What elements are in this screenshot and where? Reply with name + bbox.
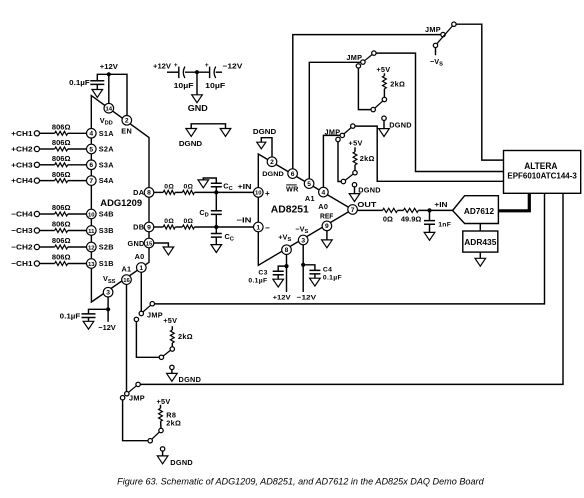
label −IN (237, 215, 252, 224)
svg-text:A0: A0 (318, 202, 328, 211)
ground DGND (bracket left) (179, 129, 202, 149)
node pull-up switch upper (ADG A0) (170, 347, 174, 351)
wire JMP4 lower to pull-up switch (136, 322, 159, 358)
resistor 806Ω (+CH2) (52, 140, 71, 151)
node +CH4 terminal (11, 176, 39, 185)
svg-text:DB: DB (133, 223, 144, 232)
node −12V (ADG1209 VSS) (98, 323, 116, 332)
node pull-up switch upper (A1) (382, 97, 386, 101)
svg-text:−12V: −12V (222, 62, 242, 71)
pin 16 A1 of ADG1209 (121, 264, 131, 284)
resistor 0Ω (DA second) (182, 183, 194, 194)
svg-text:−CH1: −CH1 (11, 259, 32, 268)
node jumper JMP2 common (361, 60, 365, 64)
pin 15 GND of ADG1209 (127, 238, 153, 248)
svg-text:2kΩ: 2kΩ (166, 419, 181, 428)
svg-text:DGND: DGND (179, 139, 202, 148)
wire resistor to pin 6 (68, 164, 87, 166)
svg-text:806Ω: 806Ω (52, 172, 71, 179)
pin 4 A0 of AD8251 (318, 187, 328, 211)
wire DA junction to CC cap (215, 187, 217, 193)
node jumper JMP5 lower (120, 396, 124, 400)
svg-text:4: 4 (322, 189, 326, 196)
ground at 1nF (424, 232, 435, 240)
jumper JMP1 blade (437, 26, 453, 44)
wire +CH4 to resistor (40, 180, 55, 182)
wire pin 7 to 0Ω (357, 209, 382, 211)
svg-text:S3B: S3B (99, 226, 114, 235)
ground DGND (ADG A1 jumper) (157, 456, 193, 467)
svg-text:GND: GND (188, 104, 208, 113)
svg-text:+IN: +IN (238, 182, 252, 191)
svg-text:S3A: S3A (99, 160, 115, 169)
svg-text:S1A: S1A (99, 129, 115, 138)
svg-text:−IN: −IN (237, 215, 252, 224)
wire +12V junction to pin 14 (108, 74, 110, 103)
caption Figure 63 (117, 477, 484, 487)
svg-text:806Ω: 806Ω (52, 255, 71, 262)
svg-text:0Ω: 0Ω (383, 214, 393, 223)
wire resistor to pin 5 (68, 148, 87, 150)
resistor 49.9Ω (401, 208, 422, 223)
svg-text:DA: DA (133, 188, 145, 197)
jumper pull-up blade (ADG A1) (152, 432, 160, 439)
svg-text:−CH3: −CH3 (11, 226, 32, 235)
svg-text:7: 7 (89, 178, 93, 185)
svg-text:6: 6 (291, 171, 295, 178)
ground DGND (ADG A0 jumper) (167, 373, 202, 384)
svg-text:+CH1: +CH1 (11, 129, 32, 138)
wire pin 8 to +12V (286, 255, 288, 293)
svg-text:+IN: +IN (434, 200, 447, 209)
node +12V (ADG1209 VDD supply) (100, 62, 118, 71)
wire DGND stub (A0) (354, 187, 356, 194)
ALTERA EPF6010ATC144-3 FPGA block (504, 151, 581, 194)
label +IN (AD7612) (434, 200, 447, 209)
wire VSS junction to cap (89, 309, 109, 314)
svg-text:49.9Ω: 49.9Ω (401, 214, 422, 223)
ground at DA CC cap (198, 180, 209, 188)
wire −CH1 to resistor (40, 263, 55, 265)
junction GND of supply caps (195, 70, 199, 74)
node +CH3 terminal (11, 160, 39, 169)
svg-text:10µF: 10µF (174, 81, 195, 90)
svg-text:S4B: S4B (99, 210, 114, 219)
label ADG1209 (100, 197, 142, 208)
wire JMP1 lower to −VS (435, 48, 437, 56)
svg-text:0Ω: 0Ω (164, 218, 174, 225)
node pull-up switch lower (A0) (341, 179, 345, 183)
wire JMP4 to ALTERA (154, 193, 544, 304)
wire −CH3 to resistor (40, 230, 55, 232)
pin 2 EN of ADG1209 (121, 116, 132, 136)
wire −CH2 to resistor (40, 246, 55, 248)
capacitor CC (DB to ground) (211, 232, 234, 243)
junction +12V rail (107, 72, 111, 76)
node jumper JMP3 common (340, 133, 344, 137)
resistor R8 2kΩ (159, 408, 182, 427)
node +5V (ADG A0 pull-up) (163, 316, 177, 325)
capacitor 0.1µF (VDD decoupling) (69, 78, 104, 87)
svg-text:REF: REF (320, 212, 334, 221)
svg-text:1: 1 (256, 224, 260, 231)
svg-text:0.1µF: 0.1µF (248, 277, 267, 284)
wire between DA 0Ω resistors (175, 191, 182, 193)
jumper pull-up blade (A0) (345, 174, 353, 180)
wire DGND stub (A1) (383, 120, 385, 128)
jumper JMP5 blade (129, 386, 137, 393)
ground at VDD decoupling cap (92, 90, 103, 98)
wire CC bottom to ground (215, 237, 217, 245)
wire DB junction to CC cap (215, 227, 217, 234)
ground DGND (bracket right) (220, 129, 231, 137)
junction −VS node (301, 263, 305, 267)
svg-text:0.1µF: 0.1µF (60, 312, 81, 321)
svg-text:14: 14 (106, 107, 113, 113)
wire pin 3 to −12V (107, 297, 109, 322)
pin 12 S2B of ADG1209 (87, 242, 114, 252)
svg-text:12: 12 (88, 245, 95, 251)
svg-text:A1: A1 (305, 194, 315, 203)
wire JMP1 to ALTERA (456, 24, 503, 160)
wire CC top to ground hook (203, 178, 216, 183)
svg-text:6: 6 (89, 162, 93, 169)
svg-text:1: 1 (139, 265, 143, 272)
svg-text:15: 15 (146, 241, 153, 247)
wire resistor to pin 7 (68, 180, 87, 182)
wire C3 to ground (277, 275, 279, 279)
wire pin 9 to 0Ω resistors (154, 226, 163, 228)
svg-text:806Ω: 806Ω (52, 222, 71, 229)
capacitor 1nF (424, 221, 451, 229)
wire +CH3 to resistor (40, 164, 55, 166)
op-amp AD8251 body (258, 154, 352, 265)
jumper pull-up blade (A1) (375, 101, 383, 108)
wire +CH1 to resistor (40, 132, 55, 134)
svg-text:−12V: −12V (297, 294, 317, 301)
resistor 2kΩ (A0 pull-up) (353, 152, 375, 165)
ground at DB CC cap (211, 245, 222, 253)
svg-text:S1B: S1B (99, 259, 114, 268)
resistor 0Ω (output) (383, 208, 398, 223)
capacitor C3 0.1µF (248, 270, 283, 285)
svg-text:2: 2 (125, 118, 129, 125)
svg-text:3: 3 (106, 290, 110, 297)
node DGND stub (ADG A1) (160, 447, 164, 451)
wire JMP3 to ALTERA (355, 126, 504, 181)
wire pin 9 to ground (326, 231, 328, 240)
svg-text:JMP: JMP (425, 25, 441, 34)
resistor 0Ω (DB second) (182, 218, 194, 229)
svg-text:+CH2: +CH2 (11, 145, 32, 154)
capacitor 10µF (−12V, polarized) (205, 62, 226, 90)
svg-text:0.1µF: 0.1µF (323, 274, 342, 281)
wire cap to −12V (216, 71, 222, 73)
wire 49.9Ω to AD7612 +IN (418, 209, 452, 211)
svg-text:JMP: JMP (346, 53, 362, 62)
wire −VS junction to C4 (303, 265, 315, 271)
svg-text:+5V: +5V (163, 316, 177, 325)
svg-text:4: 4 (89, 131, 93, 138)
node +12V (AD8251 +VS) (273, 294, 292, 301)
wire +12V rail to VDD and EN (97, 74, 127, 115)
svg-text:C3: C3 (258, 270, 267, 277)
wire resistor to pin 4 (68, 132, 87, 134)
wire JMP2 lower to pull-up switch (358, 68, 371, 110)
svg-text:9: 9 (325, 223, 329, 230)
svg-text:+12V: +12V (153, 62, 171, 71)
pin 2 DGND of AD8251 (262, 157, 283, 178)
node −CH1 terminal (11, 259, 39, 268)
ground DGND (A1 jumper) (379, 121, 412, 137)
bus AD7612 to ALTERA (498, 193, 529, 211)
resistor 806Ω (−CH2) (52, 238, 71, 249)
pin 6 WR of AD8251 (286, 169, 299, 194)
label +IN (238, 182, 252, 191)
svg-text:+5V: +5V (376, 65, 390, 74)
resistor 806Ω (+CH4) (52, 172, 71, 183)
wire 0Ω to 49.9Ω (398, 209, 404, 211)
svg-text:WR: WR (286, 185, 299, 194)
node jumper JMP4 lower (134, 317, 138, 321)
node jumper JMP1 upper (452, 22, 456, 26)
capacitor C4 0.1µF (309, 266, 342, 281)
svg-text:S4A: S4A (99, 176, 115, 185)
wire +12V to 10µF cap (167, 71, 179, 73)
ADG1209 multiplexer body outline (91, 96, 149, 302)
resistor 806Ω (−CH1) (52, 255, 71, 266)
wire 10µF caps junction (185, 71, 210, 73)
pin 8 DA of ADG1209 (133, 188, 154, 198)
wire −CH4 to resistor (40, 213, 55, 215)
svg-text:1nF: 1nF (438, 221, 451, 228)
pin 11 S3B of ADG1209 (87, 226, 114, 236)
svg-text:0Ω: 0Ω (164, 183, 174, 190)
node +5V (A1 pull-up) (376, 65, 390, 74)
svg-text:16: 16 (123, 278, 130, 284)
svg-text:+: + (174, 62, 178, 69)
svg-text:−: − (265, 223, 270, 232)
node −CH2 terminal (11, 243, 39, 252)
pin 7 OUT of AD8251 (348, 200, 377, 214)
svg-text:C4: C4 (323, 266, 332, 273)
wire ADG pin 16 to JMP5 (126, 284, 128, 391)
pin 9 DB of ADG1209 (133, 222, 154, 232)
node jumper JMP5 common (125, 392, 129, 396)
node −CH4 terminal (11, 210, 39, 219)
svg-text:0.1µF: 0.1µF (69, 78, 90, 87)
wire pin 2 to DGND (261, 138, 272, 157)
svg-text:0Ω: 0Ω (183, 218, 193, 225)
svg-text:−CH2: −CH2 (11, 243, 32, 252)
pin 1 −IN of AD8251 (253, 222, 270, 232)
wire junction to GND (196, 72, 198, 95)
svg-text:DGND: DGND (262, 171, 283, 178)
resistor 0Ω (DA first) (163, 183, 175, 194)
svg-text:GND: GND (127, 239, 144, 248)
svg-text:3: 3 (301, 237, 305, 244)
svg-text:JMP: JMP (129, 393, 145, 402)
pin 10 S4B of ADG1209 (87, 209, 114, 219)
wire resistor to pin 11 (68, 230, 87, 232)
pin 3 VSS of ADG1209 (103, 274, 116, 297)
resistor 2kΩ (ADG A0 pull-up) (170, 330, 192, 343)
wire DB to AD8251 −IN (194, 226, 253, 228)
svg-text:10: 10 (88, 212, 95, 218)
node pull-up switch upper (ADG A1) (159, 428, 163, 432)
ground at C4 (310, 278, 321, 286)
wire R8 to +5V (160, 405, 162, 409)
capacitor 0.1µF (VSS decoupling) (60, 312, 96, 321)
ground GND (supply caps) (188, 95, 208, 113)
pin 9 REF of AD8251 (320, 212, 334, 231)
wire pull-up to resistor (ADG A0) (171, 343, 173, 347)
jumper JMP2 blade (365, 55, 373, 61)
node DGND stub (A0) (352, 183, 356, 187)
wire DGND stub (ADG A0) (171, 370, 173, 374)
label JMP (ADG A0 jumper) (147, 310, 163, 319)
junction DB node (214, 225, 218, 229)
svg-text:S2B: S2B (99, 243, 114, 252)
node +CH2 terminal (11, 145, 39, 154)
AD7612 ADC block (453, 196, 499, 224)
jumper pull-up blade (ADG A0) (163, 350, 170, 356)
svg-text:EN: EN (121, 127, 132, 136)
wire pull-up to resistor (A0) (354, 165, 356, 171)
wire resistor to +5V (ADG A0) (171, 326, 173, 330)
wire C4 to ground (314, 274, 316, 278)
svg-text:11: 11 (88, 229, 95, 235)
wire +CH2 to resistor (40, 148, 55, 150)
wire resistor to pin 10 (68, 213, 87, 215)
node jumper JMP3 upper (351, 124, 355, 128)
wire JMP5 lower to pull-up switch (123, 400, 148, 441)
svg-text:+: + (205, 62, 209, 69)
pin 5 S2A of ADG1209 (87, 144, 115, 154)
svg-text:806Ω: 806Ω (52, 238, 71, 245)
node pull-up switch upper (A0) (353, 171, 357, 175)
resistor 806Ω (+CH3) (52, 156, 71, 167)
svg-text:8: 8 (147, 190, 151, 197)
node −12V (supply caps) (222, 62, 242, 71)
wire +VS junction to C3 (278, 266, 286, 271)
wire A1 pin 5 to JMP2 (309, 62, 360, 179)
label JMP (A0 jumper) (325, 128, 341, 137)
svg-text:EPF6010ATC144-3: EPF6010ATC144-3 (507, 171, 577, 180)
node DGND stub (A1) (382, 116, 386, 120)
wire junction to 1nF (429, 210, 431, 220)
svg-text:AD7612: AD7612 (464, 207, 495, 216)
wire cap to ground (88, 318, 90, 322)
wire resistor to pin 13 (68, 263, 87, 265)
node +CH1 terminal (11, 129, 39, 138)
wire resistor to +5V (A0) (354, 147, 356, 152)
resistor 806Ω (+CH1) (52, 125, 71, 136)
capacitor CD (differential) (199, 208, 221, 219)
svg-text:−CH4: −CH4 (11, 210, 32, 219)
node pull-up switch lower (A1) (371, 107, 375, 111)
wire pin 3 to −12V (302, 245, 304, 292)
ground DGND at AD8251 pin 2 (253, 127, 276, 149)
ground at C3 (273, 279, 284, 287)
wire DA junction to CD cap (215, 192, 217, 210)
svg-text:Figure 63. Schematic of ADG120: Figure 63. Schematic of ADG1209, AD8251,… (117, 477, 484, 487)
resistor 806Ω (−CH3) (52, 222, 71, 233)
svg-text:DGND: DGND (358, 186, 381, 195)
wire DGND bracket (191, 124, 225, 129)
svg-text:OUT: OUT (357, 200, 377, 209)
wire pin 15 to ground (154, 243, 169, 247)
capacitor 10µF (+12V, polarized) (174, 62, 195, 90)
node jumper JMP1 lower (433, 43, 437, 47)
svg-text:JMP: JMP (147, 310, 163, 319)
svg-text:5: 5 (307, 181, 311, 188)
node jumper JMP3 lower (336, 137, 340, 141)
svg-text:DGND: DGND (170, 458, 193, 467)
pin 14 VDD of ADG1209 (100, 103, 114, 126)
ground DGND (A0 jumper) (349, 186, 381, 202)
jumper JMP4 blade (143, 305, 151, 312)
ground at ADG1209 pin 15 (163, 247, 174, 255)
junction DA node (214, 190, 218, 194)
node +12V (supply caps) (153, 62, 171, 71)
svg-text:806Ω: 806Ω (52, 205, 71, 212)
pin 1 A0 of ADG1209 (135, 252, 147, 272)
node jumper JMP1 common (441, 32, 445, 36)
jumper JMP3 blade (344, 128, 351, 134)
pin 7 S4A of ADG1209 (87, 176, 115, 186)
svg-text:2kΩ: 2kΩ (178, 332, 193, 341)
wire ADR435 to ground (479, 252, 481, 258)
svg-text:10µF: 10µF (205, 81, 226, 90)
svg-text:+12V: +12V (100, 62, 118, 71)
resistor 0Ω (DB first) (163, 218, 175, 229)
svg-text:AD8251: AD8251 (271, 204, 309, 216)
node jumper JMP2 lower (356, 64, 360, 68)
svg-text:DGND: DGND (179, 375, 202, 384)
svg-text:+CH4: +CH4 (11, 176, 32, 185)
svg-text:9: 9 (147, 224, 151, 231)
svg-text:+CH3: +CH3 (11, 160, 32, 169)
wire ADG pin 1 to JMP4 (140, 272, 142, 311)
pin 6 S3A of ADG1209 (87, 160, 115, 170)
ground at AD8251 REF (322, 240, 333, 248)
svg-text:DGND: DGND (389, 121, 412, 130)
node jumper JMP5 upper (136, 382, 140, 386)
wire resistor to pin 12 (68, 246, 87, 248)
svg-text:7: 7 (351, 207, 355, 214)
wire AD7612 to ADR435 (479, 224, 481, 232)
wire JMP2 to ALTERA (376, 53, 504, 171)
svg-text:S2A: S2A (99, 145, 115, 154)
svg-text:13: 13 (88, 262, 95, 268)
pin 3 −VS of AD8251 (295, 224, 308, 244)
node jumper JMP2 upper (372, 51, 376, 55)
svg-text:ALTERA: ALTERA (524, 161, 558, 171)
node +5V (R8 pull-up) (156, 397, 170, 406)
pin 10 +IN of AD8251 (253, 188, 270, 198)
ground at ADR435 (475, 258, 486, 266)
label JMP (A1 jumper) (346, 53, 362, 62)
node DGND stub (ADG A0) (170, 365, 174, 369)
wire between DB 0Ω resistors (175, 226, 182, 228)
wire JMP5 to ALTERA (140, 193, 563, 384)
svg-text:806Ω: 806Ω (52, 125, 71, 132)
pin 4 S1A of ADG1209 (87, 129, 115, 139)
wire 1nF to ground (429, 224, 431, 232)
wire pin 8 to 0Ω resistors (154, 191, 163, 193)
svg-text:+5V: +5V (349, 139, 363, 148)
